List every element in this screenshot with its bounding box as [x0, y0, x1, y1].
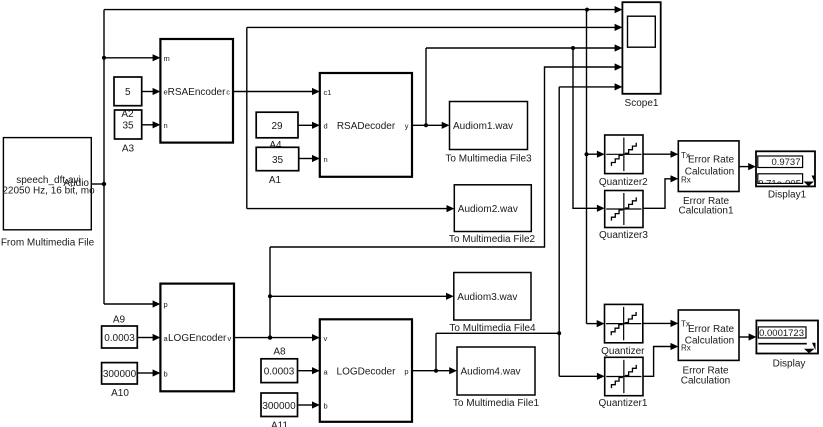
svg-text:Quantizer3: Quantizer3: [599, 230, 648, 241]
wire constant A9 (0.0003) to LOGEncoder a: [137, 334, 160, 341]
wire constant A3 (35) to RSAEncoder n: [142, 121, 161, 128]
svg-text:m: m: [164, 54, 170, 63]
block constant A1 value 35: [256, 147, 299, 170]
wire v riser x=270: [269, 247, 271, 338]
label To Multimedia File1: [453, 398, 540, 409]
block constant A10 value 300000: [102, 363, 138, 384]
wire p vertical trunk x=559.2: [558, 87, 560, 376]
svg-text:Error Rate: Error Rate: [688, 155, 735, 166]
svg-text:Scope1: Scope1: [625, 98, 659, 109]
wire p run to trunk: [436, 332, 559, 334]
wire y drop to Quantizer3: [573, 48, 605, 212]
svg-text:v: v: [227, 334, 231, 343]
wire Quantizer1 output to Error Rate Calculation Rx: [643, 343, 678, 376]
block To Multimedia File (Audiom3.wav): [454, 273, 531, 321]
svg-text:Error Rate: Error Rate: [688, 324, 735, 335]
label Scope1: [625, 98, 659, 109]
port label Audio: [63, 178, 89, 189]
wire c vertical x=246.8: [246, 27, 248, 208]
junction y at x=573: [571, 46, 575, 50]
wire constant A10 (300000) to LOGEncoder b: [137, 369, 160, 376]
marker Display overflow triangle: [804, 343, 816, 354]
block Scope1: [622, 2, 660, 94]
wire Quantizer2 output to Error Rate Calculation1 Tx: [643, 151, 678, 158]
wire c: RSAEncoder output to RSADecoder c1: [233, 88, 320, 95]
wire Quantizer output to Error Rate Calculation Tx: [643, 320, 679, 327]
svg-text:0.0003: 0.0003: [264, 367, 295, 378]
label Quantizer: [601, 346, 645, 357]
label A11: [271, 421, 288, 427]
svg-text:A10: A10: [111, 388, 129, 399]
svg-text:To Multimedia File4: To Multimedia File4: [449, 323, 536, 334]
wire Audio into Quantizer: [587, 320, 605, 327]
junction Audio at Quantizer2 branch: [585, 152, 589, 156]
wire constant A1 (35) to RSADecoder n: [299, 155, 320, 162]
svg-text:y: y: [405, 122, 409, 131]
svg-text:Quantizer: Quantizer: [601, 346, 645, 357]
block Display1 value 0.9737: [756, 151, 815, 189]
svg-text:300000: 300000: [262, 401, 296, 412]
block To Multimedia File (Audiom1.wav): [450, 102, 528, 150]
label A8: [273, 347, 286, 358]
svg-text:0.0001723: 0.0001723: [759, 328, 804, 339]
wire v branch to To Multimedia File4: [270, 293, 454, 300]
svg-text:A9: A9: [113, 315, 126, 326]
svg-text:35: 35: [122, 120, 134, 131]
block LOGDecoder U4: [320, 319, 412, 422]
block To Multimedia File (Audiom2.wav): [454, 185, 531, 232]
svg-text:Display1: Display1: [768, 190, 807, 201]
svg-text:RSADecoder: RSADecoder: [337, 121, 396, 132]
wire Audio top run to Scope1 input 1: [104, 6, 622, 13]
block constant A2 value 5: [114, 77, 142, 106]
block LOGEncoder U3: [160, 284, 234, 392]
svg-text:RSAEncoder: RSAEncoder: [168, 87, 226, 98]
svg-text:Rx: Rx: [681, 344, 691, 353]
svg-text:A1: A1: [269, 175, 282, 186]
svg-text:Quantizer1: Quantizer1: [599, 398, 648, 409]
label A3: [122, 144, 135, 155]
block constant A4 value 29: [256, 112, 298, 138]
svg-text:LOGEncoder: LOGEncoder: [168, 333, 227, 344]
svg-text:0.0003: 0.0003: [104, 333, 135, 344]
wire c top run to Scope1 input 2: [247, 24, 623, 31]
svg-text:From Multimedia File: From Multimedia File: [1, 238, 95, 249]
block From Multimedia File (speech_dft.avi): [2, 138, 95, 230]
wire Audio drop x=586.5 to Quantizer and Quantizer2: [586, 10, 588, 324]
wire Error Rate Calculation1 output to Display1: [739, 163, 756, 170]
svg-text:LOGDecoder: LOGDecoder: [337, 367, 397, 378]
block constant A3 value 35: [115, 110, 142, 139]
label A10: [111, 388, 129, 399]
svg-text:Audio: Audio: [63, 178, 89, 189]
wire y riser x=426: [425, 48, 427, 125]
label Display1: [768, 190, 807, 201]
svg-text:Calculation: Calculation: [685, 336, 734, 347]
marker Display1 overflow triangle: [804, 176, 816, 187]
svg-text:5: 5: [125, 87, 131, 98]
label Quantizer3: [599, 230, 648, 241]
svg-text:Calculation1: Calculation1: [678, 206, 733, 217]
wire Error Rate Calculation output to Display: [739, 333, 756, 340]
wire p: LOGDecoder output to To Multimedia File1: [412, 367, 457, 374]
svg-text:A8: A8: [273, 347, 286, 358]
svg-text:p: p: [164, 300, 168, 309]
wire constant A8 (0.0003) to LOGDecoder a: [298, 367, 320, 374]
wire constant A4 (29) to RSADecoder d: [298, 122, 320, 129]
block Quantizer2: [605, 135, 643, 174]
label To Multimedia File2: [449, 234, 536, 245]
svg-text:To Multimedia File2: To Multimedia File2: [449, 234, 536, 245]
svg-text:n: n: [324, 155, 328, 164]
svg-text:Rx: Rx: [681, 176, 691, 185]
wire y top run to Scope1 input 3: [426, 44, 622, 51]
label A4 (behind constant A1): [269, 140, 282, 151]
block Error Rate Calculation (lower): [678, 310, 739, 360]
wire p to Quantizer1: [559, 373, 605, 380]
svg-text:n: n: [164, 121, 168, 130]
svg-text:To Multimedia File1: To Multimedia File1: [453, 398, 540, 409]
svg-text:c: c: [226, 88, 230, 97]
svg-text:A3: A3: [122, 144, 135, 155]
wire constant A2 (5) to RSAEncoder e: [142, 88, 161, 95]
junction Audio at m-branch: [102, 56, 106, 60]
junction y output: [424, 123, 428, 127]
junction Audio top at x=587: [585, 8, 589, 12]
block Display value 0.0001723: [756, 321, 818, 354]
block To Multimedia File (Audiom4.wav): [457, 347, 535, 395]
wire Audio branch to RSAEncoder port m: [104, 54, 160, 61]
label Error Rate Calculation1: [678, 196, 733, 217]
wire Audio branch to LOGEncoder port p: [104, 300, 160, 307]
label A9: [113, 315, 126, 326]
wire Audio into Quantizer2: [587, 151, 605, 158]
label Error Rate Calculation: [681, 366, 730, 387]
junction v at Audiom3 branch: [268, 294, 272, 298]
wire p riser x=436: [435, 333, 437, 370]
svg-text:Display: Display: [773, 359, 806, 370]
junction p output: [434, 369, 438, 373]
label From Multimedia File: [1, 238, 95, 249]
wire Audio: From Multimedia File output to junction: [91, 183, 104, 185]
wire constant A11 (300000) to LOGDecoder b: [298, 401, 320, 408]
junction v output: [268, 335, 272, 339]
wire y: RSADecoder output to To Multimedia File3: [412, 122, 450, 129]
svg-text:To Multimedia File3: To Multimedia File3: [445, 154, 532, 165]
block Quantizer1: [605, 357, 643, 395]
svg-text:Audiom3.wav: Audiom3.wav: [457, 292, 517, 303]
svg-text:A2: A2: [121, 109, 134, 120]
svg-text:Audiom1.wav: Audiom1.wav: [453, 121, 513, 132]
label Quantizer2: [599, 177, 648, 188]
wire Audio vertical trunk x=104: [103, 10, 105, 304]
svg-text:v: v: [324, 334, 328, 343]
svg-text:Audiom4.wav: Audiom4.wav: [461, 367, 521, 378]
svg-text:Tx: Tx: [681, 320, 690, 329]
svg-text:Audiom2.wav: Audiom2.wav: [458, 204, 518, 215]
junction p trunk: [557, 331, 561, 335]
wire p to Scope1 input 5: [559, 83, 622, 90]
block Quantizer3: [605, 191, 643, 228]
block Error Rate Calculation1 (upper): [678, 141, 739, 192]
label Quantizer1: [599, 398, 648, 409]
svg-text:A11: A11: [271, 421, 288, 427]
wire v run up to Scope1 input 4: [270, 63, 622, 247]
label To Multimedia File4: [449, 323, 536, 334]
label A1: [269, 175, 282, 186]
svg-text:0.9737: 0.9737: [771, 157, 800, 168]
block constant A11 value 300000: [261, 393, 298, 417]
svg-text:Quantizer2: Quantizer2: [599, 177, 648, 188]
wire c bottom run to To Multimedia File2: [247, 205, 454, 212]
svg-text:b: b: [164, 370, 168, 379]
svg-text:b: b: [324, 402, 328, 411]
label Display: [773, 359, 806, 370]
label A2: [121, 109, 134, 120]
svg-text:Calculation: Calculation: [681, 376, 730, 387]
svg-text:p: p: [404, 367, 408, 376]
block constant A9 value 0.0003: [102, 326, 138, 348]
svg-text:Tx: Tx: [681, 151, 690, 160]
label To Multimedia File3: [445, 154, 532, 165]
junction Audio main: [102, 182, 106, 186]
block RSAEncoder U1: [160, 39, 233, 143]
block RSADecoder U2: [320, 73, 412, 177]
svg-text:35: 35: [272, 155, 284, 166]
svg-text:Calculation: Calculation: [685, 167, 734, 178]
wire Quantizer3 output to Error Rate Calculation1 Rx: [643, 175, 678, 208]
svg-text:c1: c1: [324, 88, 332, 97]
svg-text:e: e: [164, 88, 168, 97]
block Quantizer: [605, 304, 643, 342]
svg-text:d: d: [324, 122, 328, 131]
wire v: LOGEncoder output to LOGDecoder v: [234, 334, 320, 341]
svg-text:300000: 300000: [103, 369, 137, 380]
block constant A8 value 0.0003: [261, 359, 298, 383]
svg-text:29: 29: [271, 121, 283, 132]
